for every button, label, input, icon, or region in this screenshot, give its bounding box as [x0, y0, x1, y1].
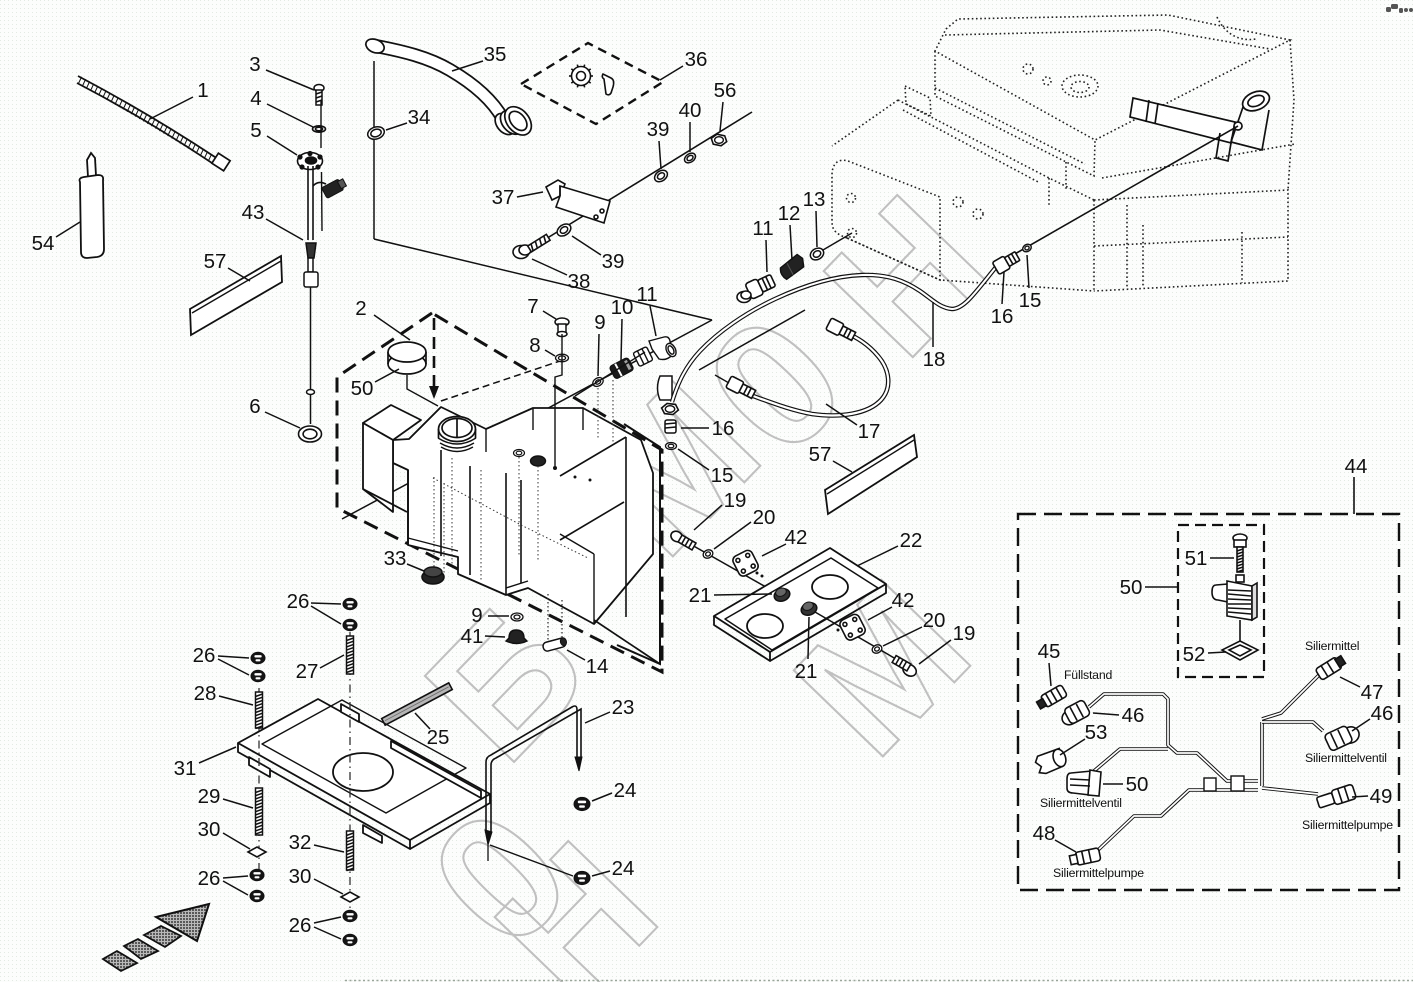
svg-text:34: 34	[408, 106, 431, 129]
svg-text:38: 38	[568, 270, 591, 293]
svg-text:33: 33	[384, 547, 407, 570]
o-ring 34	[366, 125, 386, 142]
U-bracket 23	[485, 706, 582, 861]
grommet ring 6	[299, 426, 322, 442]
nuts 26 lower-left pair	[250, 869, 264, 880]
svg-text:14: 14	[586, 655, 609, 678]
connector on dipstick	[321, 177, 347, 198]
svg-text:30: 30	[198, 818, 221, 841]
plug 46 left	[1058, 699, 1091, 727]
svg-text:22: 22	[900, 529, 923, 552]
grommet 41	[506, 630, 527, 644]
fuel tank body	[363, 405, 653, 624]
svg-text:Siliermittelventil: Siliermittelventil	[1040, 796, 1122, 810]
svg-text:41: 41	[461, 625, 484, 648]
washer 4	[313, 126, 326, 132]
top-right corner marks	[1386, 4, 1413, 13]
hose 17 fitting A	[726, 376, 757, 400]
svg-text:26: 26	[289, 914, 312, 937]
nut 56	[711, 134, 726, 146]
hose 17 fitting B	[826, 318, 857, 342]
svg-text:57: 57	[809, 443, 832, 466]
o-ring 13	[808, 246, 826, 263]
svg-text:24: 24	[614, 779, 637, 802]
fitting 10	[609, 357, 634, 379]
bolt 38	[513, 234, 550, 258]
bracket 42 upper	[731, 549, 760, 578]
fitting 12	[777, 253, 808, 280]
svg-text:11: 11	[752, 217, 773, 240]
connector 45	[1035, 684, 1067, 710]
clip 14	[542, 637, 568, 652]
axis line bolts 38-56	[523, 112, 752, 253]
stud 29	[256, 788, 263, 835]
mounting panel behind tank	[617, 424, 660, 664]
svg-text:9: 9	[594, 311, 605, 334]
nuts 26 bottom pair	[343, 910, 357, 921]
stud axes dash-dot	[259, 632, 350, 915]
svg-text:36: 36	[685, 48, 708, 71]
svg-text:21: 21	[795, 660, 818, 683]
svg-text:16: 16	[712, 417, 735, 440]
sealant tube 54	[80, 153, 105, 258]
washer 9 lower	[511, 613, 523, 621]
svg-text:48: 48	[1033, 822, 1056, 845]
svg-text:23: 23	[612, 696, 635, 719]
svg-text:53: 53	[1085, 721, 1108, 744]
svg-text:32: 32	[289, 831, 312, 854]
svg-text:Siliermittelpumpe: Siliermittelpumpe	[1053, 866, 1144, 880]
tank filler neck	[438, 417, 476, 452]
seal 52	[1222, 641, 1258, 660]
line from hose35 toward tank	[374, 239, 712, 320]
cap 36 contents	[569, 65, 614, 95]
bracket 42 lower	[838, 613, 867, 642]
svg-text:17: 17	[858, 420, 881, 443]
svg-text:19: 19	[953, 622, 976, 645]
svg-text:43: 43	[242, 201, 265, 224]
svg-text:47: 47	[1361, 681, 1384, 704]
svg-text:37: 37	[492, 186, 515, 209]
svg-text:40: 40	[679, 99, 702, 122]
svg-text:51: 51	[1185, 547, 1208, 570]
svg-text:18: 18	[923, 348, 946, 371]
nuts 26 top pair	[343, 598, 357, 609]
line from tank toward fitting	[342, 320, 712, 519]
fitting 16 left + washer 15 left	[658, 376, 679, 415]
svg-text:6: 6	[249, 395, 260, 418]
stud 27	[347, 636, 354, 674]
svg-text:25: 25	[427, 726, 450, 749]
svg-text:16: 16	[991, 305, 1014, 328]
svg-text:27: 27	[296, 660, 319, 683]
svg-text:19: 19	[724, 489, 747, 512]
svg-text:24: 24	[612, 857, 635, 880]
svg-text:28: 28	[194, 682, 217, 705]
inner dashed box 50	[1178, 525, 1264, 677]
solenoid valve 50	[1212, 575, 1257, 641]
nut 24 lower	[574, 871, 590, 884]
svg-text:46: 46	[1371, 702, 1394, 725]
svg-text:30: 30	[289, 865, 312, 888]
svg-text:26: 26	[198, 867, 221, 890]
svg-text:12: 12	[778, 202, 801, 225]
svg-text:56: 56	[714, 79, 737, 102]
hose 18	[672, 267, 996, 402]
connector 47	[1315, 654, 1346, 680]
washer 8	[556, 354, 569, 362]
connector 49	[1316, 784, 1357, 810]
svg-text:39: 39	[602, 250, 625, 273]
svg-text:13: 13	[803, 188, 826, 211]
nut 21 lower	[799, 600, 818, 618]
dashed box 36	[521, 43, 663, 124]
valve plug 50 lower	[1067, 770, 1101, 796]
svg-text:9: 9	[471, 604, 482, 627]
stud 28	[256, 692, 263, 729]
washer 20 lower	[871, 643, 883, 654]
nut 21 upper	[772, 586, 791, 604]
svg-text:31: 31	[174, 757, 197, 780]
nuts 26 left pair	[251, 652, 265, 663]
axis line hose18 to machine filler	[1006, 126, 1238, 259]
washer 40	[683, 151, 698, 165]
svg-text:5: 5	[250, 119, 261, 142]
base plate 31	[238, 699, 490, 849]
washer 30 left	[248, 847, 266, 857]
svg-text:4: 4	[250, 87, 261, 110]
svg-text:39: 39	[647, 118, 670, 141]
drain nut 33	[422, 570, 444, 584]
svg-text:Siliermittel: Siliermittel	[1305, 639, 1359, 653]
dipstick 43 assembly	[308, 166, 326, 240]
svg-text:Siliermittelpumpe: Siliermittelpumpe	[1302, 818, 1393, 832]
svg-text:20: 20	[753, 506, 776, 529]
hose 17	[753, 334, 888, 415]
filler hose 35	[376, 46, 503, 119]
washer 9	[591, 376, 605, 388]
dashed box 44	[1018, 514, 1399, 890]
nut 24 upper	[574, 797, 590, 810]
washer 39 right	[652, 168, 669, 184]
svg-text:42: 42	[785, 526, 808, 549]
connector 48	[1069, 848, 1101, 867]
axis to machine port	[823, 233, 852, 250]
svg-text:Füllstand: Füllstand	[1064, 668, 1112, 682]
breather cap 50	[388, 342, 438, 406]
svg-text:52: 52	[1183, 643, 1206, 666]
flange 5	[298, 152, 323, 170]
svg-text:50: 50	[1126, 773, 1149, 796]
bolt 51	[1233, 534, 1247, 572]
fitting 16 right	[992, 250, 1021, 275]
svg-text:10: 10	[611, 296, 634, 319]
svg-text:15: 15	[711, 464, 734, 487]
stud 32	[347, 831, 354, 871]
svg-text:46: 46	[1122, 704, 1145, 727]
svg-text:20: 20	[923, 609, 946, 632]
washer 39 lower	[555, 221, 573, 238]
bolt 3	[314, 85, 324, 106]
dashed line to washer 8	[441, 361, 560, 401]
machine body top right	[832, 15, 1295, 291]
svg-text:1: 1	[197, 79, 208, 102]
support rail 25	[382, 683, 453, 725]
svg-text:8: 8	[529, 334, 540, 357]
svg-text:26: 26	[287, 590, 310, 613]
axis line lower	[815, 612, 908, 666]
svg-text:11: 11	[636, 283, 657, 306]
svg-text:7: 7	[527, 295, 538, 318]
washer 15 right	[1021, 243, 1032, 254]
axis line 19-21 upper	[676, 536, 780, 595]
svg-text:49: 49	[1370, 785, 1393, 808]
svg-text:3: 3	[249, 53, 260, 76]
svg-text:35: 35	[484, 43, 507, 66]
svg-text:29: 29	[198, 785, 221, 808]
bolt 7	[555, 318, 569, 337]
tray 22	[714, 548, 886, 661]
svg-text:57: 57	[204, 250, 227, 273]
svg-text:Siliermittelventil: Siliermittelventil	[1305, 751, 1387, 765]
connector 11 (pair)	[737, 273, 777, 303]
connector 53	[1034, 747, 1069, 775]
svg-text:44: 44	[1345, 455, 1368, 478]
cable tie 1	[77, 76, 230, 171]
svg-text:42: 42	[892, 589, 915, 612]
svg-text:54: 54	[32, 232, 55, 255]
svg-text:50: 50	[1120, 576, 1143, 599]
plug 46 right	[1324, 721, 1362, 752]
washer 30 right	[341, 892, 359, 902]
washer 20 upper	[702, 548, 714, 559]
svg-text:21: 21	[689, 584, 712, 607]
svg-text:26: 26	[193, 644, 216, 667]
bracket 37	[546, 180, 610, 223]
bolt 19 lower	[890, 656, 918, 679]
strip 57 right	[825, 435, 917, 514]
svg-text:50: 50	[351, 377, 374, 400]
tank top fittings (washer + plug)	[514, 450, 525, 457]
svg-text:2: 2	[355, 297, 366, 320]
machine filler spout	[1130, 87, 1272, 161]
bottom scan artifact line	[345, 980, 1413, 982]
bolt 19 upper	[669, 529, 697, 551]
svg-text:15: 15	[1019, 289, 1042, 312]
harness wires	[1089, 694, 1258, 781]
dashed arrow into filler	[433, 318, 436, 386]
elbow 11	[633, 337, 678, 367]
svg-text:45: 45	[1038, 640, 1061, 663]
label strip 57 left	[190, 256, 282, 335]
dashed box 2	[337, 313, 662, 672]
